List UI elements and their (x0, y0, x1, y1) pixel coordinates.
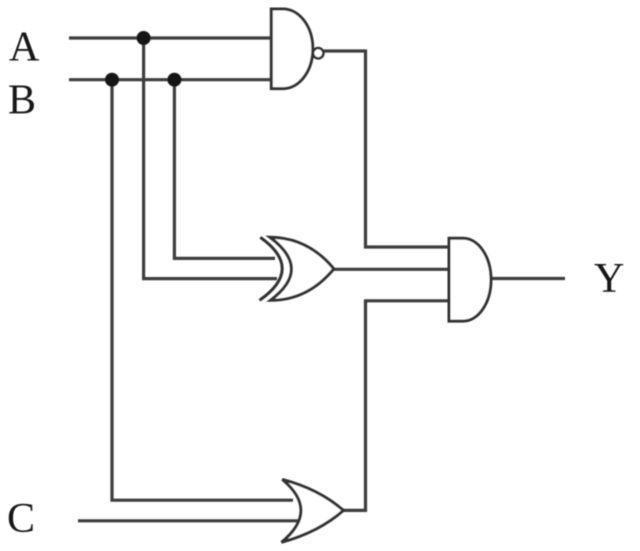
XOR gate U2 extra input arc (260, 237, 283, 300)
junction dot node B second tap (167, 73, 181, 87)
wire A to NAND input 1 (69, 36, 271, 39)
junction dot node B first tap (105, 73, 119, 87)
wire from node A down to XOR lower input (144, 38, 277, 279)
wire B to NAND input 2 (69, 78, 271, 81)
NAND gate U1 inversion bubble (313, 48, 323, 58)
NAND gate U1 body (271, 9, 313, 89)
wire OR output to AND input 3 (343, 301, 448, 511)
svg-text:A: A (9, 25, 40, 71)
svg-text:B: B (8, 78, 36, 124)
OR gate U3 body (282, 479, 344, 542)
junction dot node A (137, 31, 151, 45)
wire from node B (second tap) down to XOR upper input (174, 80, 275, 259)
wire from node B (first tap) down to OR upper input (112, 80, 293, 501)
wire XOR output to AND input 2 (334, 268, 448, 271)
AND gate U4 body (449, 238, 491, 321)
wire C to OR lower input (78, 519, 302, 522)
wire NAND output to AND input 1 (324, 51, 448, 247)
svg-text:C: C (7, 496, 35, 542)
wire AND output to Y (491, 277, 565, 280)
XOR gate U2 body (270, 237, 334, 300)
svg-text:Y: Y (594, 256, 624, 302)
